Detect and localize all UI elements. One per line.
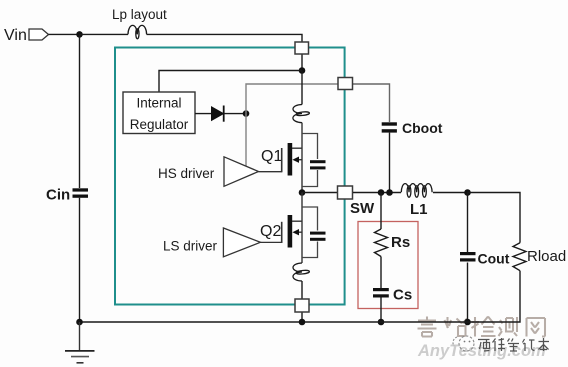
inductor L1 — [401, 184, 432, 198]
wire Cout top — [467, 193, 469, 254]
node input ground junction — [76, 319, 83, 326]
node snubber ground junction — [378, 319, 385, 326]
wire SW pad to L1 — [353, 192, 401, 194]
node output junction — [464, 189, 471, 196]
wire node to Lp — [80, 33, 129, 35]
svg-text:HS driver: HS driver — [158, 166, 215, 181]
svg-text:Internal: Internal — [136, 96, 181, 111]
svg-text:Regulator: Regulator — [130, 117, 189, 132]
svg-text:LS driver: LS driver — [163, 239, 218, 254]
wire output node to Rload — [468, 193, 521, 243]
capacitor Cin — [73, 188, 89, 198]
node Vin junction — [76, 31, 83, 38]
wire bootstrap junction to BST pad — [246, 84, 338, 114]
svg-text:Vin: Vin — [4, 27, 27, 44]
svg-text:Lp layout: Lp layout — [112, 7, 167, 22]
wire Cout bottom — [467, 263, 469, 323]
svg-text:SW: SW — [350, 200, 375, 217]
svg-text:Cout: Cout — [478, 251, 510, 267]
node Cout ground junction — [464, 319, 471, 326]
wire Rload bottom — [468, 271, 521, 322]
wire BST pad to Cboot — [353, 84, 390, 122]
node Cboot junction — [386, 189, 393, 196]
LS driver triangle — [223, 228, 260, 257]
capacitor Cs — [373, 288, 389, 298]
wire GND pad to ground rail — [301, 312, 303, 322]
wire Vin tag to input node — [49, 33, 80, 35]
wire Cs to ground rail — [380, 298, 382, 323]
svg-text:Q1: Q1 — [261, 148, 282, 165]
wire Cboot to SW — [389, 133, 391, 193]
resistor Rs — [375, 229, 388, 257]
svg-text:Cin: Cin — [46, 187, 70, 204]
svg-text:Rs: Rs — [391, 234, 410, 251]
parasitic inductor top — [293, 105, 310, 123]
ground — [65, 322, 95, 363]
wire input left vertical top — [79, 35, 81, 188]
node bootstrap junction — [243, 110, 250, 117]
watermark text 硬件笔记本 — [478, 338, 549, 351]
wire input left vertical bottom — [79, 198, 81, 322]
transistor Q2 — [282, 215, 302, 248]
Q1 body capacitor branch — [302, 134, 326, 187]
pad GND — [295, 299, 309, 312]
IC boundary (teal box) — [115, 48, 345, 305]
svg-text:Cs: Cs — [393, 287, 412, 304]
Q2 body capacitor branch — [302, 207, 326, 258]
wire Lp to IN pad — [147, 34, 302, 42]
wire Rs to Cs — [380, 257, 382, 289]
svg-text:AnyTesting.com: AnyTesting.com — [417, 342, 546, 360]
wire Q2 source to GND pad — [301, 281, 303, 299]
pad IN — [295, 42, 309, 54]
wire SW node to pad — [302, 192, 337, 194]
wire Q2 drain vertical — [301, 193, 303, 264]
wire IN pad to node — [301, 54, 303, 71]
svg-text:L1: L1 — [410, 201, 428, 218]
svg-text:Q2: Q2 — [260, 223, 281, 240]
wire Q1 drain vertical — [301, 71, 303, 105]
internal regulator box U1 — [123, 92, 195, 134]
Vin input tag — [29, 29, 49, 40]
wire internal regulator supply — [159, 71, 302, 93]
resistor Rload — [513, 243, 526, 271]
watermark logo — [453, 336, 474, 351]
pad BST — [338, 78, 353, 90]
svg-text:Cboot: Cboot — [402, 120, 443, 136]
pad SW — [338, 186, 353, 199]
wire snubber top — [380, 193, 382, 230]
wire L1 to output node — [433, 192, 468, 194]
node snubber junction — [378, 189, 385, 196]
watermark text 嘉峪检测网 — [418, 317, 546, 337]
node SW internal junction — [299, 189, 306, 196]
wire ground rail — [80, 321, 468, 323]
wire HS driver to Q1 gate — [259, 171, 282, 173]
diode D1 — [212, 106, 247, 122]
wire regulator to diode — [195, 113, 212, 115]
wire LS driver to Q2 gate — [260, 241, 281, 243]
transistor Q1 — [282, 143, 302, 176]
node GND pad junction — [299, 319, 306, 326]
HS driver triangle — [224, 157, 259, 187]
capacitor Cout — [460, 252, 476, 262]
capacitor Cboot — [382, 122, 397, 132]
wire bootstrap junction to HS driver supply — [245, 114, 247, 167]
inductor Lp layout — [128, 25, 147, 38]
svg-text:Rload: Rload — [527, 248, 566, 265]
wire Q1 channel vertical — [301, 123, 303, 193]
snubber highlight (red box) — [358, 222, 418, 309]
node VIN internal junction — [299, 67, 306, 74]
parasitic inductor bottom — [293, 263, 310, 281]
